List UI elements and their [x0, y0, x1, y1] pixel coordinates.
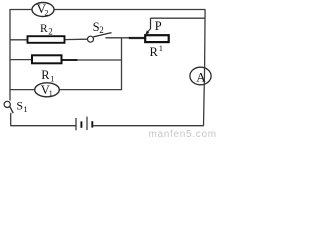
- svg-text:2: 2: [45, 8, 49, 17]
- node X vertical wire: [121, 38, 123, 90]
- svg-text:manfen5.com: manfen5.com: [149, 129, 217, 139]
- potentiometer P: [145, 18, 169, 42]
- label S1: [16, 99, 27, 114]
- wire left vertical: [9, 9, 11, 101]
- wire bottom left: [11, 125, 77, 127]
- label R1: [41, 68, 54, 84]
- resistor R1: [32, 55, 62, 63]
- svg-text:R: R: [150, 45, 159, 59]
- svg-text:1: 1: [159, 43, 163, 53]
- wire R2 row left: [10, 39, 27, 41]
- wire R1 lead thin: [77, 59, 122, 61]
- svg-text:S: S: [16, 99, 23, 113]
- wire R2 to S2: [65, 38, 87, 40]
- wire top horizontal: [10, 9, 205, 11]
- svg-text:R: R: [40, 23, 48, 35]
- svg-text:A: A: [196, 70, 206, 85]
- wire V1 row: [10, 89, 122, 91]
- wire right vertical: [204, 10, 207, 67]
- svg-text:1: 1: [49, 89, 53, 98]
- ammeter A: [190, 67, 211, 126]
- label R2: [40, 23, 53, 36]
- switch S2: [88, 33, 112, 43]
- svg-text:P: P: [155, 19, 162, 33]
- wire R1 to node X (thick lead): [63, 59, 78, 61]
- svg-text:2: 2: [48, 27, 53, 37]
- label R1 (pot, superscript): [150, 43, 164, 59]
- voltmeter V1: [35, 83, 60, 98]
- svg-text:1: 1: [50, 74, 54, 84]
- voltmeter V2: [32, 1, 54, 17]
- resistor R2: [28, 36, 65, 43]
- label S2: [93, 20, 104, 35]
- wire wiper to right vertical: [151, 17, 206, 19]
- wire bottom right: [93, 125, 204, 127]
- svg-text:1: 1: [23, 104, 27, 114]
- switch S1: [4, 101, 13, 126]
- svg-text:R: R: [41, 68, 50, 82]
- wire node X to potentiometer (thick lead): [129, 37, 145, 39]
- battery: [76, 117, 92, 131]
- wire S2 to potentiometer: [105, 37, 129, 39]
- svg-text:2: 2: [99, 25, 104, 35]
- wire R1 row left: [10, 59, 32, 61]
